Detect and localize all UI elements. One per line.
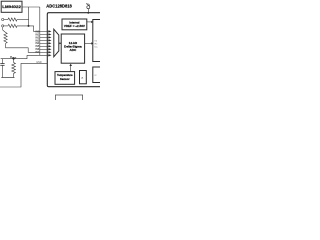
svg-text:Sensor: Sensor bbox=[60, 77, 70, 81]
svg-text:Int: Int bbox=[95, 40, 98, 43]
wire row1 to junction bbox=[17, 19, 29, 21]
wire row1 bbox=[4, 19, 8, 21]
svg-text:ADC128D818: ADC128D818 bbox=[46, 4, 72, 9]
wire VOUT node bbox=[1, 55, 27, 58]
wire VA to box bbox=[87, 9, 89, 13]
wire from LM94022 output bbox=[22, 7, 40, 55]
capacitor C1 bbox=[1, 59, 3, 64]
wire GND pin bbox=[0, 63, 47, 87]
internal reference block bbox=[62, 19, 87, 30]
interface block (clipped right) bbox=[93, 67, 105, 83]
temperature sensor U1 LM94022 bbox=[1, 1, 22, 12]
svg-text:VREF = +2.56V: VREF = +2.56V bbox=[64, 24, 85, 28]
input bus wires with arrows bbox=[27, 31, 49, 55]
misc block C (right of temp sensor) bbox=[80, 71, 87, 84]
temperature sensor block bbox=[55, 72, 75, 85]
resistor R3 bbox=[13, 59, 15, 63]
arrow ADC to registers bbox=[85, 42, 92, 44]
resistor R1 bbox=[8, 18, 17, 21]
ground bus wire bbox=[1, 77, 14, 79]
delta-sigma ADC block bbox=[61, 34, 84, 63]
terminal lead down bbox=[3, 27, 6, 32]
arrow temp sensor to ADC bbox=[70, 66, 72, 72]
junction dot bbox=[28, 25, 30, 27]
registers block (clipped right) bbox=[93, 20, 105, 62]
arrow VREF to registers bbox=[87, 21, 92, 23]
resistor R2 bbox=[8, 24, 17, 27]
external block bottom (clipped) bbox=[55, 95, 82, 103]
terminal node row1 bbox=[2, 18, 4, 20]
arrow mux to ADC bbox=[59, 42, 60, 44]
wire R4 to bus row8 bbox=[6, 43, 40, 52]
svg-text:LM94022: LM94022 bbox=[2, 5, 21, 9]
junction dot VA bbox=[87, 12, 89, 14]
wire row2 to bus bbox=[17, 26, 40, 32]
terminal node row2 bbox=[2, 25, 4, 27]
analog mux bbox=[54, 29, 59, 57]
junction dot VOUT bbox=[13, 58, 15, 60]
ADC128D818 block U2 bbox=[47, 13, 102, 87]
svg-text:ADC: ADC bbox=[70, 48, 77, 52]
svg-text:IN7: IN7 bbox=[35, 51, 39, 54]
wire row2 bbox=[4, 25, 8, 27]
input pin labels IN0-IN7 bbox=[35, 30, 39, 54]
resistor R4 (divider) bbox=[4, 33, 7, 44]
